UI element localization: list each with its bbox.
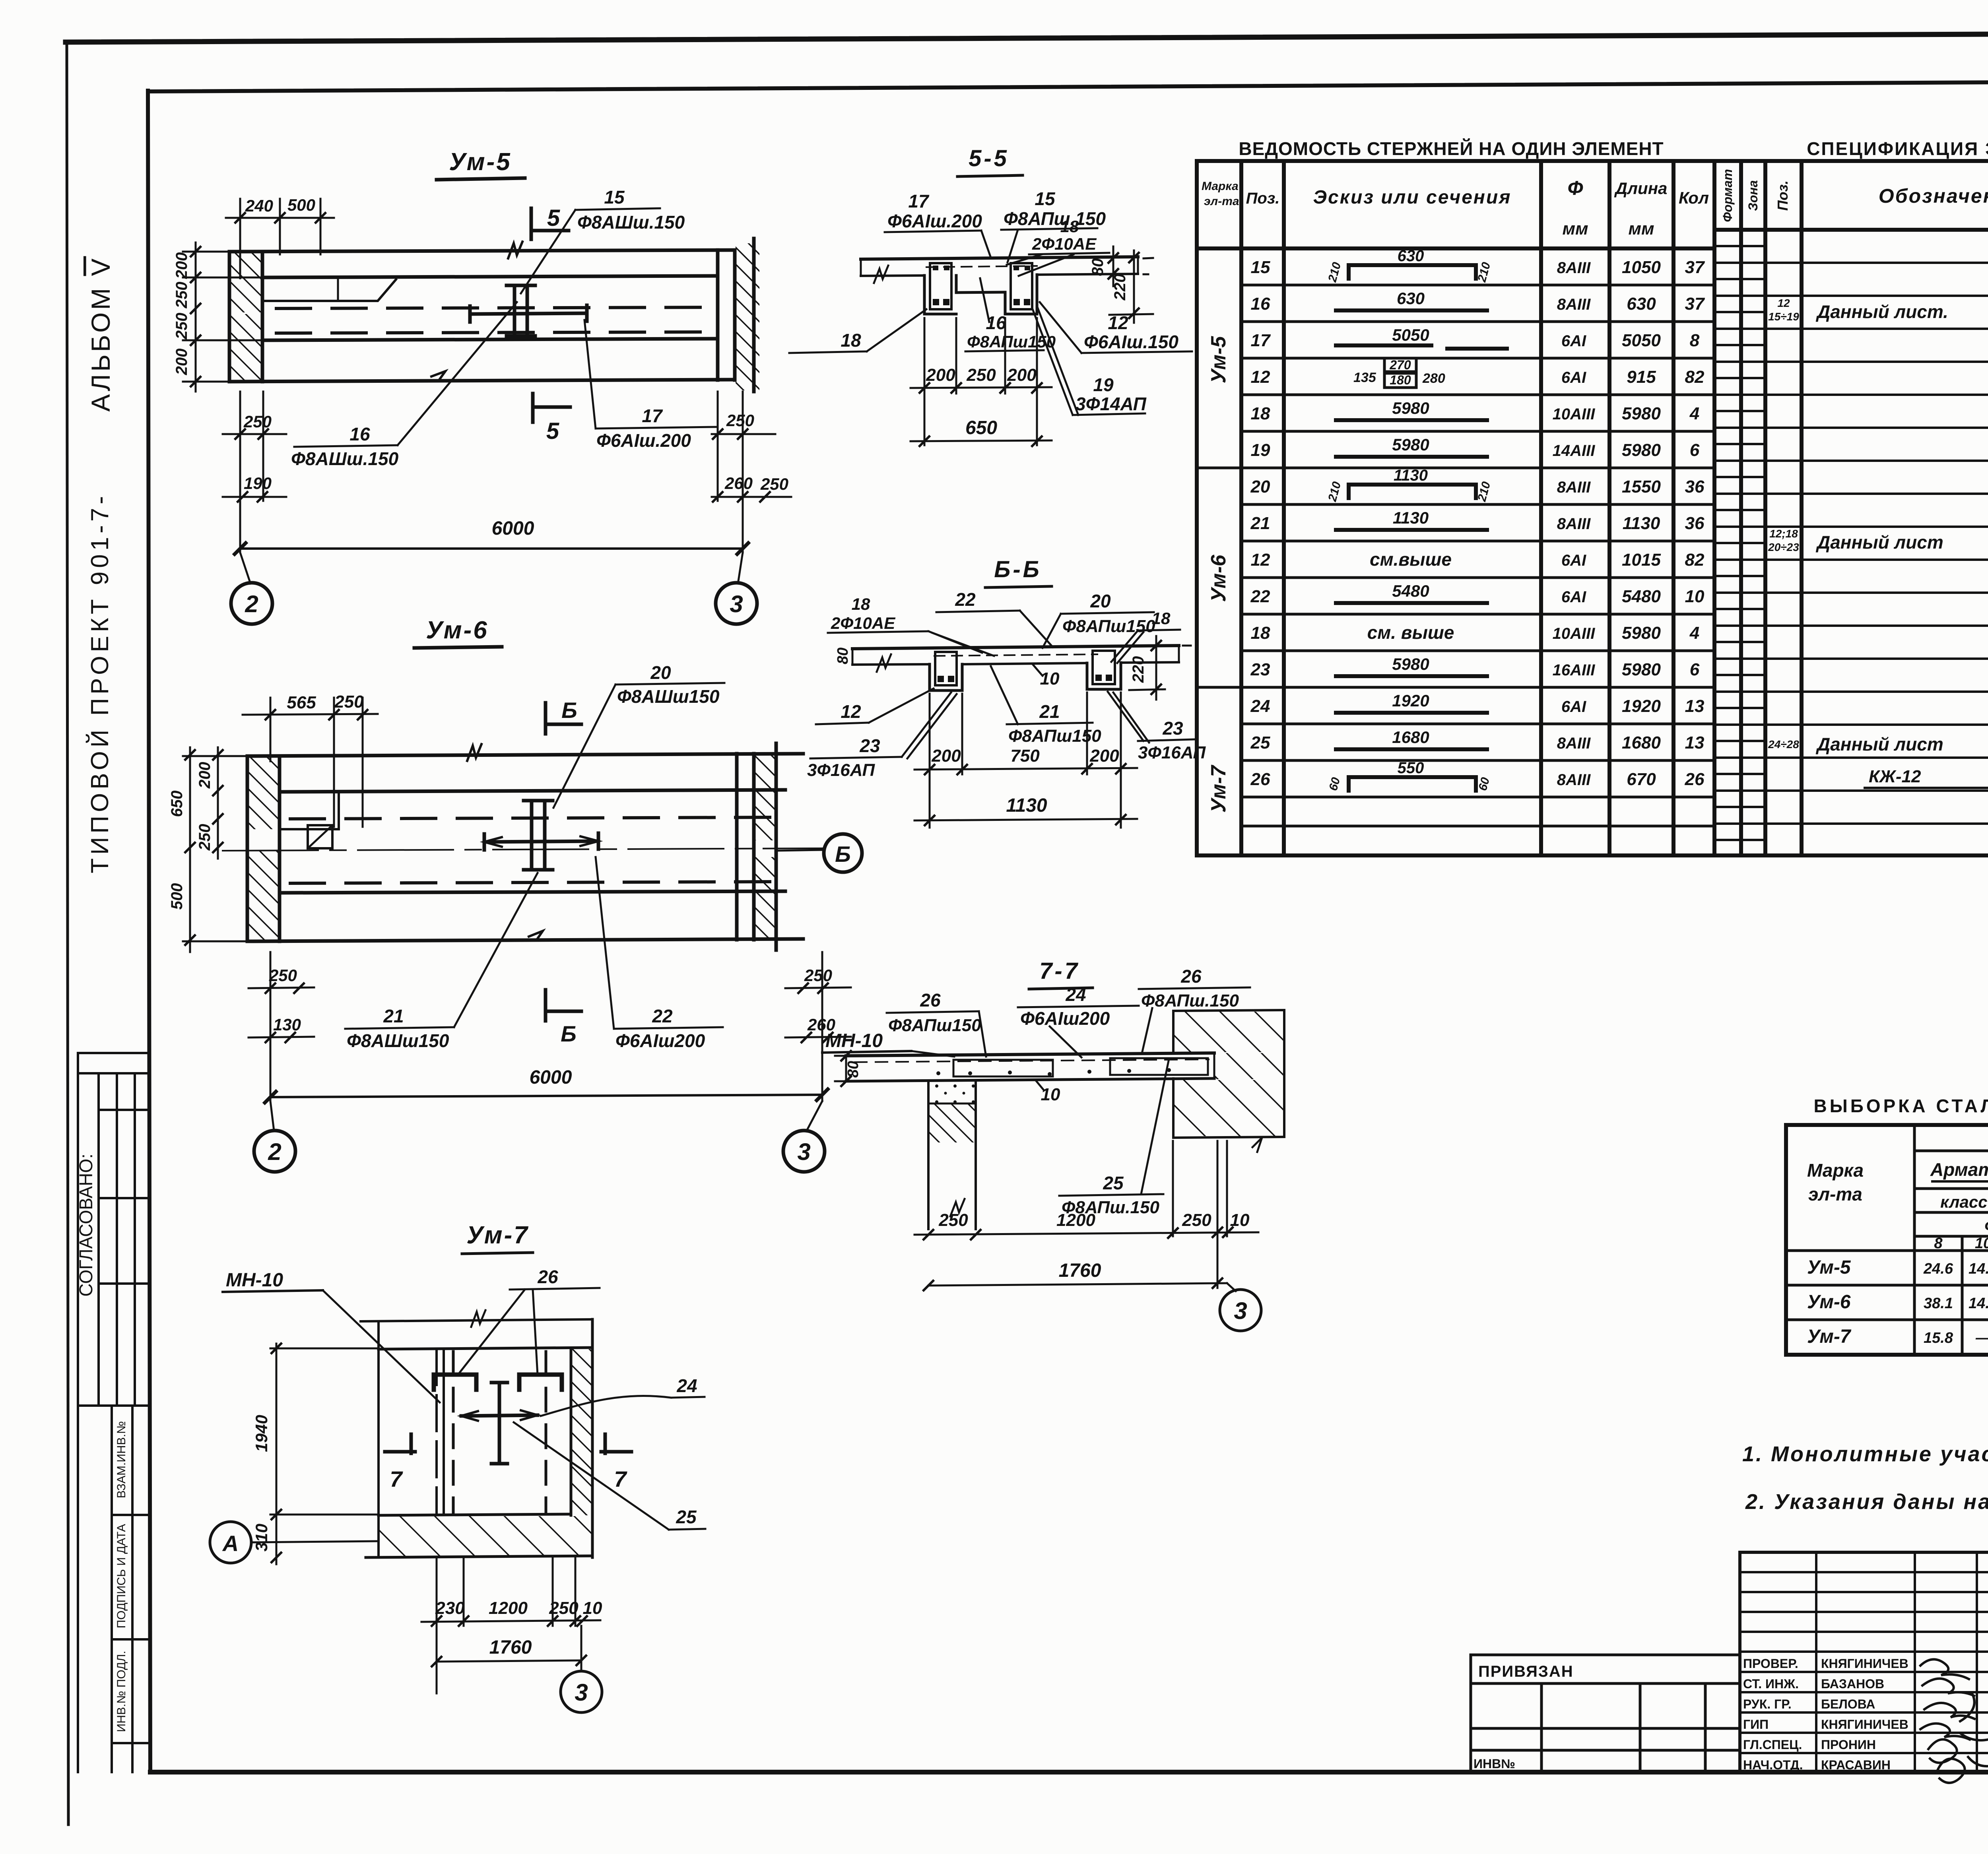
svg-text:Формат: Формат (1720, 169, 1735, 222)
rebar cross vertical bars item 20 (524, 801, 553, 870)
slab bottom edge (247, 939, 803, 941)
svg-text:КЖ-12: КЖ-12 (1869, 767, 1921, 786)
bottom dims 230 1200 250 10 (436, 1558, 438, 1693)
rebar dashed line lower (276, 332, 714, 333)
svg-text:ПРИВЯЗАН: ПРИВЯЗАН (1478, 1663, 1574, 1680)
svg-text:200: 200 (173, 252, 190, 279)
svg-text:1760: 1760 (1059, 1260, 1101, 1281)
svg-text:Ум-7: Ум-7 (466, 1222, 529, 1249)
svg-text:500: 500 (168, 883, 186, 910)
svg-text:12: 12 (1251, 550, 1270, 570)
top outer edge (361, 1319, 592, 1321)
svg-text:190: 190 (244, 474, 272, 493)
svg-text:80: 80 (835, 648, 851, 664)
svg-text:20: 20 (650, 662, 671, 683)
svg-text:250: 250 (269, 966, 297, 985)
svg-text:Ф6АIш.200: Ф6АIш.200 (596, 430, 691, 451)
sheet outer border left (67, 45, 68, 1825)
left dim chains (217, 747, 219, 859)
svg-text:АЛЬБОМ V: АЛЬБОМ V (86, 256, 115, 411)
svg-text:5480: 5480 (1622, 587, 1661, 606)
privyazan annex (1471, 1655, 1740, 1772)
svg-text:18: 18 (1251, 623, 1270, 643)
svg-text:20: 20 (1250, 477, 1270, 496)
svg-text:5480: 5480 (1392, 582, 1429, 600)
svg-text:1130: 1130 (1393, 508, 1429, 527)
right wall verticals (716, 250, 720, 380)
svg-text:13: 13 (1685, 733, 1705, 752)
svg-text:250: 250 (804, 966, 832, 985)
slab stirrup boxes (953, 1060, 1053, 1076)
svg-text:16: 16 (1251, 294, 1270, 314)
inner frame top (148, 80, 1988, 91)
slab bottom edge (229, 380, 735, 382)
svg-text:ИНВ.№ ПОДЛ.: ИНВ.№ ПОДЛ. (115, 1651, 128, 1732)
svg-text:Ф6АIш200: Ф6АIш200 (615, 1030, 705, 1051)
svg-text:13: 13 (1685, 696, 1705, 716)
svg-text:630: 630 (1627, 294, 1656, 314)
svg-text:23: 23 (1162, 718, 1183, 739)
svg-text:24: 24 (1250, 696, 1270, 716)
svg-text:5980: 5980 (1622, 440, 1661, 460)
svg-text:19: 19 (1093, 374, 1114, 395)
svg-text:—: — (1975, 1330, 1988, 1346)
svg-text:200: 200 (1007, 365, 1037, 385)
МН-10 embed strip (435, 1349, 438, 1515)
svg-text:см.выше: см.выше (1370, 549, 1452, 570)
right wall hatch (736, 243, 759, 390)
svg-text:310: 310 (252, 1524, 271, 1551)
svg-text:КРАСАВИН: КРАСАВИН (1821, 1758, 1891, 1772)
svg-text:135: 135 (1353, 370, 1376, 385)
right wall (735, 754, 739, 940)
svg-text:4: 4 (1689, 623, 1699, 643)
slab lower line (280, 891, 785, 893)
svg-text:250: 250 (726, 411, 754, 430)
svg-text:630: 630 (1398, 247, 1424, 265)
svg-text:1920: 1920 (1622, 696, 1661, 716)
svg-text:10: 10 (1040, 669, 1060, 688)
left dims 1940 310 (276, 1344, 278, 1564)
svg-text:ТИПОВОЙ ПРОЕКТ 901-7-: ТИПОВОЙ ПРОЕКТ 901-7- (86, 493, 114, 873)
svg-text:15.8: 15.8 (1924, 1330, 1953, 1346)
svg-text:230: 230 (435, 1598, 465, 1618)
svg-text:18: 18 (1251, 404, 1270, 423)
slab bottom line (861, 275, 924, 276)
svg-text:23: 23 (1250, 660, 1270, 679)
svg-text:5980: 5980 (1622, 660, 1661, 679)
svg-text:Марка: Марка (1202, 180, 1239, 193)
svg-text:Ум-5: Ум-5 (1807, 1257, 1851, 1278)
svg-text:Ф8АШш.150: Ф8АШш.150 (291, 448, 399, 469)
section mark 5 bottom (533, 405, 570, 409)
left strip stamp ladder top box (78, 1053, 149, 1772)
left strip lower stamp column (112, 1406, 149, 1772)
svg-text:5-5: 5-5 (969, 145, 1009, 171)
svg-text:1130: 1130 (1623, 514, 1660, 533)
svg-text:1680: 1680 (1622, 733, 1661, 752)
wall step notch (280, 792, 339, 829)
svg-text:Ф8АПш.150: Ф8АПш.150 (1141, 991, 1239, 1010)
svg-text:24: 24 (1065, 984, 1086, 1005)
left support column (927, 1081, 930, 1229)
svg-text:21: 21 (1039, 701, 1060, 722)
svg-text:200: 200 (1089, 746, 1119, 766)
grid bubble 3 (738, 553, 743, 584)
svg-text:Длина: Длина (1614, 179, 1668, 198)
bottom dims 200 250 200 (924, 318, 926, 445)
svg-text:25: 25 (676, 1507, 697, 1527)
grid bubble 3 (1227, 1283, 1236, 1291)
inner top line (379, 1348, 592, 1349)
svg-text:2Ф10АЕ: 2Ф10АЕ (1032, 235, 1097, 253)
dashed rebar upper (290, 817, 775, 819)
svg-text:ВЕДОМОСТЬ СТЕРЖНЕЙ НА ОДИН: ВЕДОМОСТЬ СТЕРЖНЕЙ НА ОДИН ЭЛЕМЕНТ (1239, 138, 1664, 159)
svg-text:240: 240 (245, 196, 273, 215)
svg-text:Ф8АПш.150: Ф8АПш.150 (1004, 208, 1106, 229)
svg-text:Данный лист.: Данный лист. (1815, 301, 1948, 322)
svg-text:38.1: 38.1 (1924, 1295, 1953, 1312)
svg-text:3: 3 (730, 591, 743, 617)
svg-text:Поз.: Поз. (1246, 190, 1280, 207)
svg-text:200: 200 (196, 762, 214, 789)
svg-text:36: 36 (1685, 477, 1705, 496)
svg-text:3: 3 (1234, 1297, 1247, 1324)
svg-text:эл-та: эл-та (1808, 1184, 1862, 1204)
svg-text:2Ф10АЕ: 2Ф10АЕ (831, 614, 896, 632)
svg-text:18: 18 (852, 595, 870, 613)
svg-text:6000: 6000 (530, 1067, 572, 1088)
svg-text:60: 60 (1476, 776, 1493, 792)
svg-text:Ум-7: Ум-7 (1807, 1326, 1852, 1347)
svg-text:37: 37 (1685, 294, 1705, 314)
svg-text:МН-10: МН-10 (825, 1030, 883, 1051)
svg-text:1130: 1130 (1006, 795, 1047, 816)
svg-text:3Ф16АП: 3Ф16АП (807, 760, 875, 780)
svg-text:14АIII: 14АIII (1553, 442, 1596, 460)
svg-text:ПРОНИН: ПРОНИН (1821, 1738, 1876, 1752)
svg-text:Поз.: Поз. (1774, 180, 1791, 211)
svg-text:250: 250 (760, 475, 788, 493)
sheet outer border top (66, 32, 1988, 42)
svg-text:10: 10 (1685, 587, 1705, 606)
slab top edge (229, 250, 735, 252)
svg-text:15: 15 (604, 187, 625, 208)
svg-text:20÷23: 20÷23 (1768, 541, 1799, 553)
svg-text:6АI: 6АI (1561, 369, 1586, 386)
svg-text:14.8: 14.8 (1969, 1295, 1988, 1312)
svg-text:22: 22 (652, 1006, 673, 1026)
svg-text:24÷28: 24÷28 (1768, 738, 1799, 751)
svg-text:18: 18 (1152, 609, 1171, 628)
section mark 7 left (385, 1450, 415, 1454)
axis line (223, 848, 824, 851)
svg-text:4: 4 (1689, 404, 1699, 423)
signature table (1740, 1552, 1988, 1772)
svg-text:6АI: 6АI (1561, 698, 1586, 716)
svg-text:23: 23 (859, 735, 880, 756)
dim 80 left (835, 1055, 846, 1057)
svg-text:1680: 1680 (1392, 728, 1429, 747)
svg-text:200: 200 (926, 365, 955, 385)
axis bubble А (210, 1522, 251, 1563)
svg-text:565: 565 (287, 693, 316, 712)
svg-text:21: 21 (383, 1006, 404, 1026)
svg-text:Ум-6: Ум-6 (426, 617, 488, 644)
svg-text:1200: 1200 (1056, 1210, 1095, 1230)
svg-text:25: 25 (1103, 1173, 1124, 1193)
svg-text:см. выше: см. выше (1367, 622, 1454, 643)
svg-text:1940: 1940 (252, 1415, 271, 1452)
svg-text:750: 750 (1010, 746, 1040, 766)
slab top edge (247, 754, 803, 756)
svg-text:мм: мм (1628, 219, 1654, 239)
svg-text:Ф8АШш150: Ф8АШш150 (347, 1030, 449, 1051)
slab upper line (262, 276, 718, 277)
svg-text:12: 12 (841, 701, 861, 722)
svg-text:7: 7 (390, 1466, 403, 1491)
slab rebar strip dashes (934, 654, 1097, 656)
svg-text:Ф8АШш.150: Ф8АШш.150 (577, 212, 685, 233)
svg-text:2: 2 (245, 591, 258, 617)
bottom dims 200 750 200 (929, 694, 931, 828)
svg-text:200: 200 (931, 746, 961, 766)
svg-text:10: 10 (583, 1598, 602, 1618)
svg-text:24: 24 (676, 1375, 697, 1396)
svg-text:8АIII: 8АIII (1557, 771, 1591, 789)
svg-text:915: 915 (1627, 367, 1656, 387)
svg-text:82: 82 (1685, 550, 1705, 570)
svg-text:6000: 6000 (492, 518, 534, 539)
svg-text:250: 250 (549, 1598, 579, 1618)
svg-text:Ф6АIш.200: Ф6АIш.200 (887, 211, 982, 231)
svg-text:3Ф14АП: 3Ф14АП (1076, 394, 1147, 414)
section mark 7 right (601, 1450, 631, 1454)
svg-text:6АI: 6АI (1561, 588, 1586, 606)
svg-text:Эскиз или сечения: Эскиз или сечения (1313, 187, 1512, 208)
svg-text:6: 6 (1690, 660, 1700, 679)
svg-text:15: 15 (1251, 258, 1270, 277)
svg-text:24.6: 24.6 (1923, 1261, 1953, 1277)
svg-text:15: 15 (1035, 188, 1056, 209)
svg-text:1550: 1550 (1622, 477, 1661, 496)
rebar bar item 22 horizontal (484, 833, 598, 850)
svg-text:1. Монолитные участки замаркир: 1. Монолитные участки замаркированы на л… (1742, 1442, 1988, 1466)
svg-text:5980: 5980 (1392, 435, 1429, 454)
svg-text:12;18: 12;18 (1769, 527, 1798, 540)
svg-text:8: 8 (1934, 1235, 1943, 1252)
svg-text:280: 280 (1422, 371, 1445, 386)
svg-text:210: 210 (1326, 261, 1343, 284)
svg-text:630: 630 (1397, 289, 1425, 308)
svg-text:Арматурная сталь ГОСТ5781-75: Арматурная сталь ГОСТ5781-75 (1930, 1159, 1988, 1180)
left outer edge (377, 1321, 380, 1557)
svg-text:5980: 5980 (1392, 399, 1429, 417)
svg-text:Ум-6: Ум-6 (1207, 555, 1230, 602)
svg-text:37: 37 (1685, 258, 1705, 277)
svg-text:250: 250 (196, 824, 214, 851)
svg-text:26: 26 (1685, 770, 1705, 789)
svg-text:19: 19 (1251, 440, 1270, 460)
right hatched strip (570, 1348, 573, 1515)
svg-text:250: 250 (173, 282, 190, 309)
signatures squiggles (1920, 1659, 1969, 1679)
svg-text:ГИП: ГИП (1743, 1717, 1769, 1732)
svg-text:6АI: 6АI (1561, 552, 1586, 569)
svg-text:1050: 1050 (1622, 258, 1661, 277)
svg-text:5: 5 (546, 418, 559, 444)
svg-text:РУК. ГР.: РУК. ГР. (1743, 1697, 1792, 1711)
svg-text:220: 220 (1111, 274, 1129, 301)
svg-text:КНЯГИНИЧЕВ: КНЯГИНИЧЕВ (1821, 1717, 1908, 1732)
svg-text:5: 5 (547, 205, 560, 231)
svg-text:ВЫБОРКА СТАЛИ НА ОДИН ЭЛЕМ: ВЫБОРКА СТАЛИ НА ОДИН ЭЛЕМЕНТ. КГ (1813, 1096, 1988, 1116)
svg-text:650: 650 (168, 791, 186, 817)
small opening square (308, 825, 332, 848)
left wall (246, 756, 249, 941)
svg-text:8: 8 (1690, 331, 1700, 350)
svg-text:5980: 5980 (1392, 655, 1429, 673)
svg-text:Ум-6: Ум-6 (1807, 1292, 1851, 1313)
inner frame left (148, 91, 150, 1772)
svg-text:Зона: Зона (1746, 180, 1760, 211)
slab top line (861, 257, 1138, 259)
svg-text:17: 17 (908, 191, 930, 211)
svg-text:5980: 5980 (1622, 623, 1661, 643)
svg-text:210: 210 (1326, 480, 1343, 503)
svg-text:НАЧ.ОТД.: НАЧ.ОТД. (1743, 1758, 1803, 1772)
svg-text:Б: Б (835, 842, 851, 867)
inner frame bottom (150, 1770, 1988, 1774)
svg-text:1920: 1920 (1392, 691, 1429, 710)
svg-text:500: 500 (287, 196, 315, 214)
svg-text:250: 250 (173, 313, 190, 340)
svg-text:ГЛ.СПЕЦ.: ГЛ.СПЕЦ. (1743, 1738, 1802, 1752)
svg-text:60: 60 (1327, 776, 1343, 792)
svg-text:26: 26 (1180, 966, 1202, 987)
svg-text:670: 670 (1627, 770, 1656, 789)
svg-text:18: 18 (841, 330, 861, 351)
svg-text:130: 130 (273, 1015, 301, 1034)
dashed rebar lower (290, 882, 775, 883)
svg-text:16: 16 (349, 424, 370, 444)
svg-text:17: 17 (642, 405, 663, 426)
section mark Б bottom (544, 990, 547, 1021)
svg-text:ПРОВЕР.: ПРОВЕР. (1743, 1656, 1798, 1671)
svg-text:Ф: Ф (1567, 177, 1583, 199)
svg-text:БЕЛОВА: БЕЛОВА (1821, 1697, 1875, 1711)
svg-text:270: 270 (1389, 358, 1411, 372)
svg-text:180: 180 (1390, 373, 1411, 387)
svg-text:1760: 1760 (489, 1637, 532, 1658)
svg-text:17: 17 (1251, 331, 1271, 350)
svg-text:82: 82 (1685, 367, 1705, 387)
svg-text:3: 3 (575, 1679, 588, 1706)
svg-text:2: 2 (268, 1138, 281, 1165)
left rib (930, 652, 962, 690)
svg-text:5050: 5050 (1622, 331, 1661, 350)
svg-text:Б-Б: Б-Б (994, 557, 1041, 582)
svg-text:1130: 1130 (1394, 467, 1428, 484)
svg-text:22: 22 (1250, 587, 1270, 606)
svg-text:Кол: Кол (1679, 188, 1709, 207)
right dim 220 (1183, 645, 1191, 647)
svg-text:10АIII: 10АIII (1553, 405, 1596, 423)
svg-text:8АIII: 8АIII (1557, 479, 1591, 496)
svg-text:5050: 5050 (1392, 326, 1429, 344)
svg-text:Ф8АПш150: Ф8АПш150 (888, 1016, 981, 1035)
svg-text:Ф8АШш150: Ф8АШш150 (617, 686, 720, 707)
svg-text:СПЕЦИФИКАЦИЯ ЭЛЕМЕНТОВ МОНОЛ: СПЕЦИФИКАЦИЯ ЭЛЕМЕНТОВ МОНОЛИТНОЙ КОНСТР… (1807, 138, 1988, 159)
svg-text:14.8: 14.8 (1969, 1261, 1988, 1277)
break mark bottom arrow (431, 371, 445, 380)
svg-text:26: 26 (537, 1266, 558, 1287)
axis bubble Б (776, 850, 824, 851)
svg-text:Б: Б (561, 698, 577, 723)
svg-text:МН-10: МН-10 (226, 1270, 283, 1291)
svg-text:25: 25 (1250, 733, 1270, 752)
right rib (1087, 651, 1121, 689)
svg-text:36: 36 (1685, 514, 1705, 533)
wall step notch (262, 279, 396, 301)
grid bubble 2 (270, 1101, 274, 1131)
svg-text:260: 260 (724, 474, 753, 493)
svg-text:650: 650 (965, 417, 997, 438)
svg-text:26: 26 (920, 990, 941, 1010)
svg-text:10: 10 (1975, 1235, 1988, 1252)
svg-text:200: 200 (173, 349, 190, 376)
svg-text:10АIII: 10АIII (1553, 625, 1596, 642)
svg-text:ПОДПИСЬ И ДАТА: ПОДПИСЬ И ДАТА (115, 1524, 128, 1629)
svg-text:А: А (222, 1531, 239, 1556)
svg-text:21: 21 (1250, 514, 1270, 533)
svg-text:5980: 5980 (1622, 404, 1661, 423)
item 24/25 cross (461, 1383, 538, 1464)
grid bubble 2 (240, 553, 250, 584)
svg-text:Данный лист: Данный лист (1815, 734, 1943, 754)
svg-text:6АI: 6АI (1561, 332, 1586, 350)
slab rebar strip (926, 266, 1037, 267)
svg-text:550: 550 (1398, 759, 1424, 777)
dashed rebar zone rectangle (453, 1352, 546, 1513)
svg-text:1200: 1200 (489, 1598, 528, 1618)
svg-text:250: 250 (1182, 1210, 1211, 1230)
svg-text:12: 12 (1777, 297, 1790, 309)
svg-text:20: 20 (1090, 591, 1111, 611)
rebar cross vertical bars item 15 (507, 285, 535, 336)
break mark top (508, 242, 522, 258)
svg-text:12: 12 (1108, 312, 1128, 333)
svg-text:мм: мм (1562, 219, 1588, 239)
svg-text:12: 12 (1251, 367, 1270, 387)
svg-text:СТ. ИНЖ.: СТ. ИНЖ. (1743, 1677, 1799, 1691)
svg-text:250: 250 (938, 1210, 968, 1230)
svg-text:ИНВ№: ИНВ№ (1474, 1757, 1515, 1771)
slab lower line (262, 339, 718, 340)
svg-text:80: 80 (845, 1061, 862, 1078)
svg-text:7: 7 (614, 1466, 627, 1491)
grid bubble 3 (806, 1101, 822, 1131)
svg-text:26: 26 (1250, 770, 1270, 789)
right wall (1172, 1011, 1175, 1053)
svg-text:ВЗАМ.ИНВ.№: ВЗАМ.ИНВ.№ (115, 1421, 128, 1498)
svg-text:10: 10 (1041, 1085, 1060, 1104)
svg-text:Ум-7: Ум-7 (1207, 765, 1230, 813)
svg-text:2. Указания даны на листе: 2. Указания даны на листе КЖ-7 (1745, 1490, 1988, 1514)
svg-text:Ум-5: Ум-5 (1207, 336, 1230, 384)
svg-text:эл-та: эл-та (1204, 195, 1239, 208)
slab top line (852, 646, 1179, 649)
